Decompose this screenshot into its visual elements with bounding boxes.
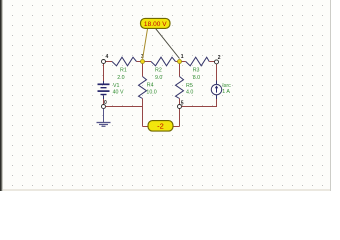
- label R3: [193, 68, 200, 82]
- svg-text:1: 1: [181, 54, 184, 60]
- resistor R3: [186, 57, 210, 66]
- label V1: [113, 83, 124, 96]
- svg-text:40 V: 40 V: [113, 90, 124, 96]
- svg-text:4.0: 4.0: [186, 90, 193, 96]
- resistor R2: [151, 57, 176, 66]
- probe leg right: [156, 29, 180, 59]
- svg-text:10.0: 10.0: [146, 90, 156, 96]
- right edge panel: [330, 0, 340, 191]
- svg-text:18.00 V: 18.00 V: [144, 21, 167, 28]
- svg-text:-2: -2: [157, 122, 164, 131]
- wire node4 to V1: [103, 64, 105, 84]
- label R4: [146, 83, 156, 96]
- wire R1 to node3: [137, 61, 143, 63]
- svg-text:R5: R5: [186, 83, 193, 89]
- wire V1 to node0: [103, 95, 105, 104]
- svg-text:0: 0: [104, 100, 107, 106]
- svg-text:1 A: 1 A: [222, 89, 230, 95]
- wire node0 to rail: [106, 106, 143, 108]
- bottom edge strip: [3, 189, 330, 191]
- wire R4 to bottom rail: [142, 99, 144, 127]
- svg-text:R1: R1: [120, 68, 127, 74]
- probe bubble -2: [148, 121, 173, 132]
- svg-text:4: 4: [106, 54, 109, 60]
- svg-text:8.0: 8.0: [193, 75, 200, 81]
- node 5: [178, 100, 184, 108]
- wire R5 to node5: [179, 99, 181, 105]
- wire R2 to node1: [176, 61, 180, 63]
- battery V1: [98, 84, 110, 94]
- resistor R4: [139, 77, 147, 99]
- wire bottom rail: [143, 126, 180, 128]
- label R5: [186, 83, 193, 96]
- current source Isrc: [211, 84, 221, 94]
- svg-text:9.0: 9.0: [155, 75, 162, 81]
- wire node1 to R3: [180, 61, 186, 63]
- wire R3 to node2: [209, 61, 214, 63]
- wire node4 to R1: [106, 61, 113, 63]
- node 4: [102, 54, 109, 64]
- wire node2 to Isrc: [216, 64, 218, 85]
- left edge bar: [0, 0, 3, 191]
- wire corner to Isrc: [216, 95, 218, 107]
- resistor R1: [112, 57, 137, 66]
- wire node1 to R5: [179, 64, 181, 77]
- probe bubble 18.00 V: [141, 18, 171, 28]
- svg-text:R3: R3: [193, 68, 200, 74]
- resistor R5: [176, 77, 184, 99]
- svg-text:V1: V1: [113, 83, 120, 89]
- node 0: [102, 100, 108, 109]
- wire rail to node5: [179, 109, 181, 127]
- wire node5 to Isrc corner: [182, 106, 217, 108]
- wire node3 to R4: [142, 64, 144, 77]
- svg-text:R2: R2: [155, 68, 162, 74]
- svg-text:2.0: 2.0: [117, 75, 124, 81]
- svg-text:R4: R4: [147, 83, 154, 89]
- probe leg left: [143, 29, 148, 59]
- junction node 1: [178, 54, 184, 64]
- label R2: [155, 68, 162, 82]
- ground: [97, 109, 111, 127]
- svg-text:5: 5: [181, 100, 184, 106]
- label R1: [117, 68, 127, 82]
- label Isrc: [222, 83, 231, 95]
- node 2: [215, 55, 221, 64]
- wire node3 to R2: [143, 61, 152, 63]
- svg-text:2: 2: [218, 55, 221, 61]
- junction node 3: [141, 54, 145, 64]
